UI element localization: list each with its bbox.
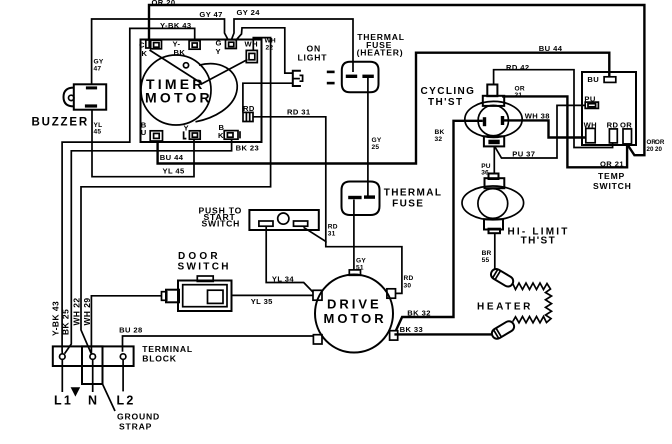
wire YL 45 buzzer to timer Y [92,110,194,177]
svg-text:GY 24: GY 24 [237,8,261,17]
svg-text:BU: BU [587,75,599,84]
timer terminal C K (pin C,K) [139,40,162,58]
wire GY 47 buzzer to timer [92,10,228,85]
hi-limit thermostat TH2 [462,174,570,247]
timer motor box [141,40,262,143]
svg-text:TEMP: TEMP [598,171,625,181]
temp switch terminal OR [620,121,632,144]
terminal block TB1 [53,344,193,384]
wire BR 55 [482,233,495,270]
wire RD terminal to on-light [243,83,293,112]
svg-text:CYCLING: CYCLING [421,86,476,97]
push to start switch S1 [199,205,319,230]
svg-text:HEATER: HEATER [477,302,533,313]
svg-text:DRIVE: DRIVE [327,297,382,312]
timer terminal Y-BK [173,39,201,57]
drive motor M1 [313,270,398,353]
svg-text:BLOCK: BLOCK [142,354,177,364]
temp switch terminal BU [587,75,615,84]
wire BK 33 [394,325,491,334]
ground arrow [71,387,81,396]
temp switch box S3 [582,72,636,191]
wire GY 24 timer to thermal fuse heater [232,8,354,72]
svg-text:32: 32 [435,136,443,143]
svg-text:SWITCH: SWITCH [202,218,241,228]
svg-text:Y: Y [216,47,221,56]
wire G-Y to on-light [237,28,293,73]
timer terminal G Y [216,38,237,56]
svg-text:K: K [142,49,148,58]
svg-text:WH: WH [245,39,258,48]
svg-text:Y-: Y- [173,39,181,48]
svg-text:30: 30 [404,282,412,289]
svg-text:BK 23: BK 23 [236,143,260,152]
svg-text:SWITCH: SWITCH [593,181,632,191]
svg-text:LIGHT: LIGHT [298,53,328,63]
svg-text:20: 20 [655,146,662,153]
temp switch terminal RD [607,121,619,143]
svg-text:47: 47 [94,65,102,72]
wire RD 30 [326,241,414,293]
connector bars near on-light [327,71,335,85]
temp switch terminal WH [584,121,597,143]
svg-text:BUZZER: BUZZER [32,116,89,128]
svg-text:31: 31 [328,230,336,237]
svg-text:55: 55 [482,257,490,264]
svg-text:WH 29: WH 29 [82,297,92,325]
svg-text:FUSE: FUSE [392,199,424,210]
wire OR 20 [149,0,644,155]
wire BU 28 [119,326,313,352]
buzzer BZ1 [32,84,107,128]
wire WH 38 [504,111,586,137]
svg-text:RD: RD [328,223,338,230]
node L1 [54,359,73,407]
svg-text:TH'ST: TH'ST [428,97,464,108]
node L2 [117,359,136,407]
svg-text:SWITCH: SWITCH [178,261,231,272]
svg-text:TERMINAL: TERMINAL [142,344,193,354]
wire RD 42 [494,63,613,147]
svg-text:BK 33: BK 33 [400,325,424,334]
timer internal contact arm WH [201,60,248,85]
wire GY 25 [368,78,382,196]
node N [88,359,99,407]
wire BK 23 / BK 25 [65,139,260,353]
cycling thermostat TH1 [421,85,523,147]
timer terminal BU [141,120,163,141]
svg-text:THERMAL: THERMAL [384,188,443,199]
svg-text:WH 22: WH 22 [72,297,82,325]
wire OR 21 [502,85,627,168]
svg-text:L2: L2 [117,393,136,407]
svg-text:BK 25: BK 25 [61,309,71,335]
svg-text:TH'ST: TH'ST [521,236,557,247]
wire GY 51 [354,200,366,272]
wire YL 34 [266,226,313,292]
svg-text:22: 22 [266,44,274,51]
svg-text:GROUND: GROUND [117,412,160,422]
svg-text:45: 45 [94,129,102,136]
timer terminal WH [245,39,258,62]
svg-text:BK: BK [435,129,445,136]
svg-text:DOOR: DOOR [178,251,221,262]
ground strap label [103,384,161,432]
svg-text:20: 20 [647,146,654,153]
timer terminal BK bottom [218,123,240,140]
svg-text:BK: BK [174,48,186,57]
temp switch terminal PU [584,95,598,109]
svg-text:MOTOR: MOTOR [324,311,387,326]
wire BK 32 [396,121,483,331]
svg-text:YL 45: YL 45 [163,167,185,176]
svg-text:MOTOR: MOTOR [145,90,213,106]
timer terminal RD [243,104,255,122]
wire Y-BK 43 [62,21,195,354]
thermal fuse F2 [342,182,443,216]
timer internal contact arm C-K [150,50,202,84]
wire PU 37 [495,105,585,158]
svg-text:Y-BK 43: Y-BK 43 [51,301,61,336]
heater R1 [477,267,552,341]
svg-text:BU 44: BU 44 [160,153,184,162]
thermal fuse (heater) F1 [342,32,405,92]
svg-text:STRAP: STRAP [119,422,152,432]
svg-text:RD 31: RD 31 [287,107,311,116]
svg-text:U: U [141,128,147,137]
svg-text:25: 25 [372,144,380,151]
wire WH 22 [81,38,276,354]
svg-text:GY 47: GY 47 [199,10,222,19]
svg-text:RD: RD [404,275,414,282]
svg-text:L1: L1 [54,393,73,407]
svg-text:BU 28: BU 28 [119,326,143,335]
svg-text:K: K [218,131,224,140]
svg-text:RD: RD [243,104,255,113]
svg-text:WH 38: WH 38 [525,111,550,120]
svg-text:RD 42: RD 42 [506,63,530,72]
wire WH 29 door switch to terminal block [91,296,161,354]
wire PU 36 [481,146,494,176]
svg-text:(HEATER): (HEATER) [357,48,404,58]
svg-text:Y: Y [184,123,189,132]
wire label OR 20 rotated pair [647,139,665,153]
wire RD 31 [253,107,338,241]
svg-text:N: N [88,393,99,407]
door switch S2 [162,251,232,311]
wire BU 44 [158,44,610,164]
timer terminal Y bottom [184,123,201,139]
wire YL 35 [232,295,314,306]
on-light lamp symbol U2 [293,44,327,87]
svg-text:YL 35: YL 35 [251,297,273,306]
